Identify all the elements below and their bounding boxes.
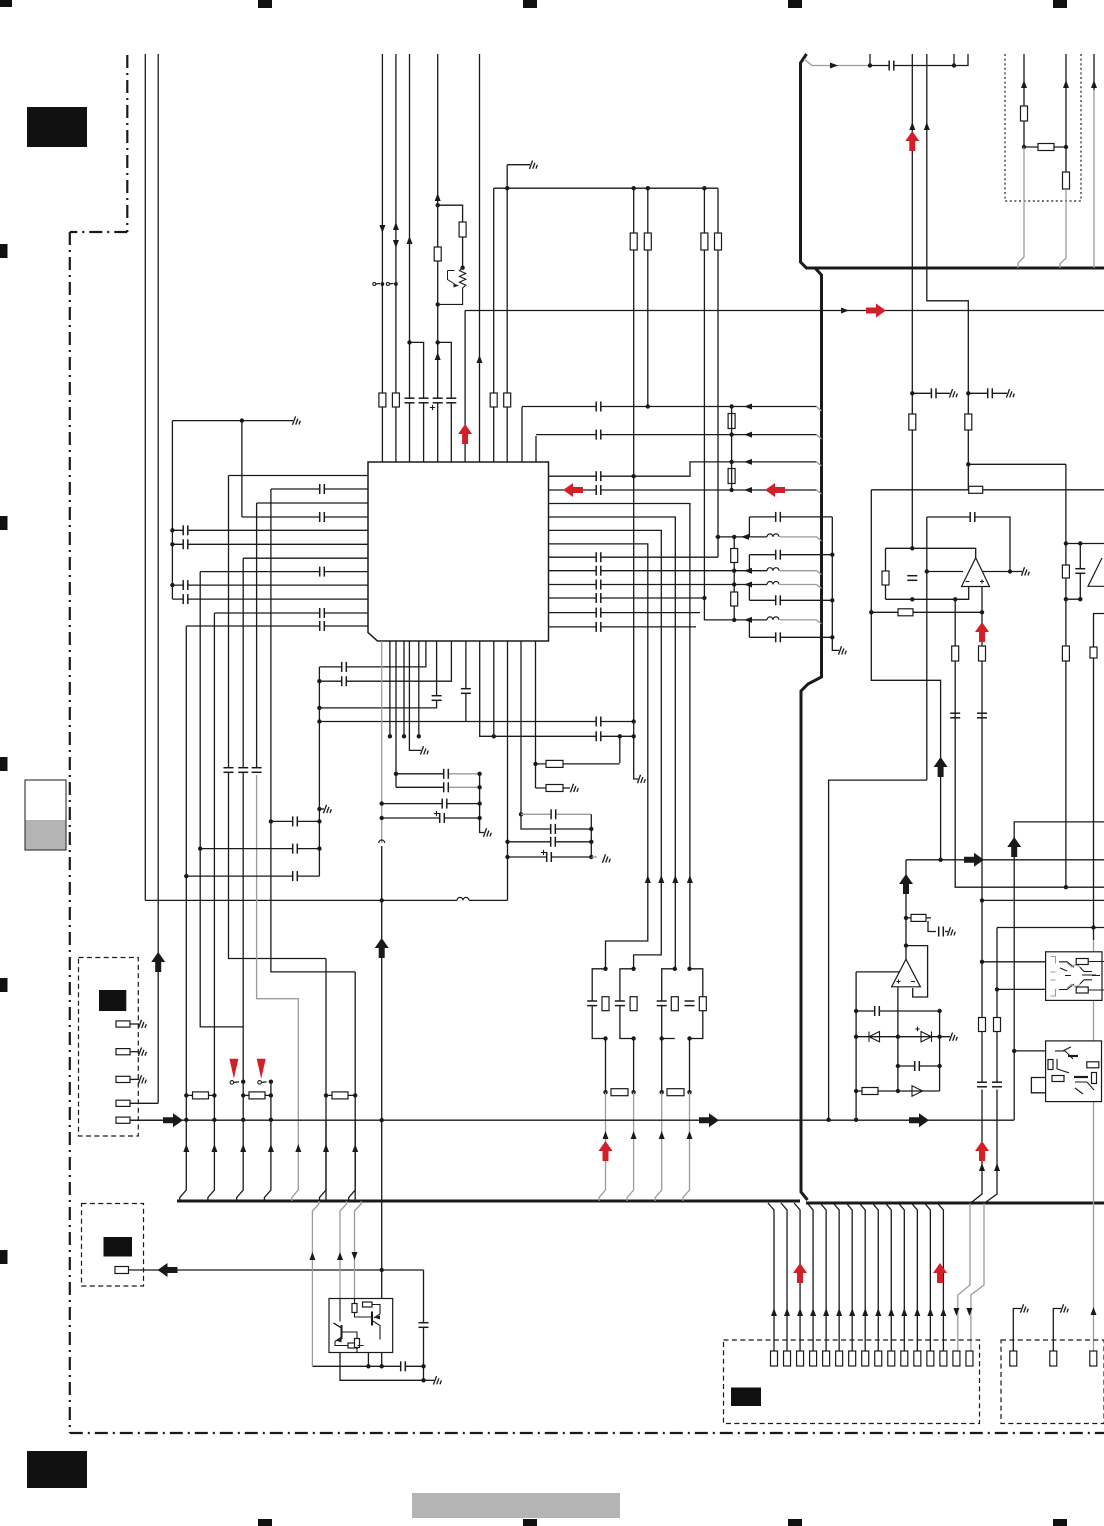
vertical wire x=243 down to switch — [242, 558, 244, 1120]
vertical wire x=271 down then right y=971 — [271, 489, 355, 972]
CN3 pin 2 — [784, 1351, 791, 1366]
cap-ground group2 y=393 — [966, 391, 970, 395]
red arrow up right group — [933, 1263, 947, 1283]
row y=1366 with cap — [312, 1365, 423, 1367]
vertical wire x=186 down to connector area — [185, 626, 187, 1120]
IC left row y=585 from x=172 — [172, 584, 368, 586]
RC pair 4 bracket — [690, 969, 703, 1039]
capacitor C pair3 — [657, 1001, 667, 1006]
CN3 pin 1 — [771, 1351, 778, 1366]
row y=803 with cap — [382, 803, 480, 805]
U5 resistor R3h — [1087, 1062, 1099, 1068]
node x=200 y=848 — [198, 846, 202, 850]
row y=708 to IC-bottom wire — [319, 641, 436, 708]
resistor R x=647 — [644, 233, 651, 250]
resistor R x=997 — [994, 1018, 1001, 1032]
node x=186 bus — [184, 1118, 188, 1122]
resistor R x=1065 upper — [1062, 565, 1069, 578]
connector CN3 pin 8 wire — [859, 1203, 865, 1351]
IC right row y=612 — [549, 612, 701, 614]
wire long horizontal y=310 — [465, 310, 1104, 312]
node branch x=437 y=342 — [436, 340, 440, 344]
wire x=1093 from op-amp U6 input down — [1094, 614, 1104, 941]
capacitor C on x=955 — [950, 713, 960, 718]
resistor R x=731 upper — [728, 414, 735, 429]
wire x=354 from thick bus to Q box — [355, 1201, 362, 1299]
capacitor C inline x=228 — [224, 768, 234, 773]
CN1 pin ground — [130, 1023, 139, 1025]
detector diode row y=1036 — [856, 1036, 950, 1038]
RC descent x=633 — [633, 1039, 635, 1093]
capacitor C inline x=243 — [238, 768, 248, 773]
capacitor C pair4 — [685, 1001, 695, 1006]
vertical x=633 from y=188 rail down to ground — [633, 188, 635, 736]
dash-dot border step at y=232 — [70, 231, 128, 233]
node switch2 — [269, 1080, 273, 1084]
capacitor C on row585 — [183, 580, 188, 590]
connector CN3 pin 16 wire — [966, 1308, 972, 1316]
U5 resistor R4v — [1092, 1073, 1097, 1084]
connector CN3 pin 2 wire — [781, 1203, 787, 1351]
channel2 coil row y=571 — [734, 570, 767, 572]
CN1 pin ground — [130, 1078, 139, 1080]
wire x=1014 bus riser — [1014, 822, 1104, 1120]
wire x=997 column — [996, 928, 998, 1085]
IC right row y=406 to boundary — [522, 406, 816, 408]
transistor array U4 box — [1046, 952, 1102, 1001]
resistor R row1 left — [186, 1094, 214, 1096]
gray rail x=1094 lower to CN4 pin3 — [1093, 940, 1095, 1351]
capacitor C on row626 — [320, 621, 325, 631]
row y=464 link — [968, 463, 1066, 465]
wire x=355 down to thick bus — [354, 972, 356, 1201]
connector CN3 pin 9 wire — [872, 1203, 878, 1351]
stub x=870 up — [869, 54, 871, 66]
vertical wire x=214 down — [213, 613, 215, 1120]
switch S1 on x=382 — [373, 283, 376, 286]
Q box resistor Rv2 — [355, 1339, 360, 1348]
IC left row y=599 from x=172 — [172, 598, 368, 600]
row y=681 to IC-bottom wire — [319, 641, 451, 681]
switch SW2 contacts — [258, 1081, 262, 1085]
registration mark top 4 — [788, 0, 802, 8]
channel4 coil row y=620 — [734, 619, 767, 621]
node x=968 y=464 — [966, 462, 970, 466]
part-number label box left (white/gray) — [25, 780, 66, 850]
IC right row y=584 to R chain — [549, 584, 735, 586]
resistor R x=885 — [885, 548, 887, 599]
row y=599 — [886, 587, 969, 600]
registration mark left 2 — [0, 516, 8, 530]
channel3 coil row y=585 — [734, 584, 767, 586]
wire x=340 below Q box — [340, 1353, 424, 1381]
IC left row y=530 from x=172 — [172, 529, 368, 531]
row y=489 with resistor to page edge — [871, 489, 1104, 491]
IC left row y=571 from x=200 — [200, 571, 368, 573]
node ladder 857 — [589, 855, 593, 859]
resistor R row2 — [243, 1094, 271, 1096]
node 708 — [317, 706, 321, 710]
resistor R pair2 — [630, 997, 637, 1011]
U4 resistor lower — [1076, 987, 1088, 993]
node 809 with ground — [317, 807, 321, 811]
wire rail x=158 top to connector pin 4 — [157, 54, 159, 1103]
channel4 bracket — [748, 620, 750, 637]
connector CN3 pin 4 wire — [807, 1203, 813, 1351]
resistor R x=982 low — [979, 1018, 986, 1032]
rail y=780 from op-amp loop with drop x=829 — [829, 780, 927, 1120]
CN3 pin 7 — [849, 1351, 856, 1366]
RC descent x=661 — [661, 1039, 663, 1093]
CN1 pin ground — [130, 1051, 139, 1053]
dash-dot border vertical upper (x=127) — [126, 55, 128, 232]
wire branch x=423 to IC pin — [410, 342, 424, 462]
row y=612 non-inv input — [871, 611, 982, 613]
wire x=926 from top, jog to x=968 — [927, 54, 969, 490]
CN3 pin 4 — [810, 1351, 817, 1366]
redacted label CN1 — [99, 990, 126, 1011]
wire x=437 from top to IC pin — [437, 54, 439, 462]
resistor R_d on x=493 — [490, 393, 497, 407]
wire x=1066 in dotted box — [1065, 54, 1067, 190]
row y=721 to IC-bottom wire and x=633 — [319, 721, 633, 723]
node x=243 bus — [241, 1118, 245, 1122]
CN3 pin 12 — [914, 1351, 921, 1366]
CN3 pin 14 — [940, 1351, 947, 1366]
resistor R x=955 — [952, 646, 959, 661]
channel2 bracket — [748, 555, 750, 571]
switch segment x=271 lower — [270, 1082, 272, 1120]
resistor R on x=437 main — [434, 247, 441, 261]
capacitor C on row571 — [320, 567, 325, 577]
vertical rail x=172 — [171, 421, 173, 599]
capacitor C bracket — [1075, 569, 1085, 574]
red arrow up x=982 — [975, 622, 989, 642]
transistor array U5 box — [1046, 1041, 1102, 1102]
IC right row y=503 to RC column 4 — [549, 504, 690, 969]
connector CN3 pin 7 wire — [846, 1203, 852, 1351]
wire x=396 from top to IC pin — [395, 54, 397, 462]
redacted label block top-left — [27, 107, 87, 147]
IC left row y=475 from x=228 — [229, 475, 369, 477]
detector cluster left rail x=856 — [855, 972, 857, 1120]
output to ground row y=571 — [1008, 569, 1012, 573]
resistor R x=1065 lower — [1062, 646, 1069, 661]
dotted option box top right — [1005, 54, 1081, 201]
IC left row y=489 from x=271 — [271, 488, 368, 490]
switch SW1 contacts — [230, 1081, 234, 1085]
left loop vertical x=871 — [871, 490, 940, 860]
op-amp U3 triangle — [892, 959, 921, 987]
wire x=404 from IC bottom to row 736 — [403, 641, 405, 736]
main thin bus y=1120 — [131, 1119, 1014, 1121]
wire x=521 from IC bottom to ladder rows — [521, 641, 591, 829]
resistor R_a on x=382 — [379, 393, 386, 407]
ground row 1380 — [424, 1379, 435, 1381]
capacitor C inline x=466 — [461, 689, 471, 694]
IC U1 main processor — [368, 462, 549, 641]
CN3 pin 6 — [836, 1351, 843, 1366]
capacitor C_a on x=409 — [405, 398, 415, 403]
connector CN3 pin 5 wire — [820, 1203, 826, 1351]
ferrite bead on x=382 — [379, 840, 385, 843]
resistor R horizontal in box — [1024, 146, 1066, 148]
IC left row y=517 from x=242 — [242, 516, 368, 518]
wire bus to thick bus — [320, 1120, 327, 1201]
vertical x=926 op-amp loop to y=780 rail — [926, 517, 928, 780]
connector CN3 pin 13 wire — [924, 1203, 930, 1351]
node x=382 on bus — [380, 1118, 384, 1122]
resistor R row y=763 — [536, 763, 620, 765]
node x=271 y=821 — [269, 819, 273, 823]
wire x=410 from IC bottom to ground — [409, 641, 421, 750]
arrow up on x=382 — [375, 938, 389, 958]
wire bus to thick bus — [180, 1120, 187, 1201]
resistor R on x=968 — [965, 414, 972, 430]
dash-dot border vertical main (x=70) — [69, 232, 71, 1433]
wire x=619 down to R row — [619, 736, 621, 763]
connector CN3 pin 6 wire — [833, 1203, 839, 1351]
IC right row y=557 to x=718 riser — [549, 556, 719, 558]
capacitor C x=423 — [419, 1323, 429, 1328]
thick boundary branch down x=821 — [801, 268, 822, 1200]
IC right row y=434 to boundary — [536, 434, 816, 436]
gray drop x=1066 to bus — [1060, 189, 1066, 268]
cap row y=821 — [271, 820, 320, 822]
node x=214 bus — [212, 1118, 216, 1122]
vertical wire x=200 down — [200, 572, 243, 1027]
channel1 cap line y=517 — [749, 516, 832, 518]
wire x=982 down to connector pin15 — [970, 1090, 982, 1204]
CN1 pin 3 — [116, 1076, 130, 1082]
switch SW2 red marker — [257, 1059, 266, 1079]
IC left row y=626 from x=186 — [186, 625, 368, 627]
registration mark left 3 — [0, 757, 8, 771]
arrow up on x=158 rail — [151, 952, 165, 972]
connector CN3 pin 1 wire — [768, 1203, 774, 1351]
ladder row 814 — [521, 813, 591, 815]
trimmer RV1 zigzag — [438, 268, 466, 305]
node x=1066 — [1064, 145, 1068, 149]
resistor R row3 — [326, 1094, 355, 1096]
CN1 pin5 wire to bus — [130, 1119, 165, 1121]
vertical rail x=319 with cap rows — [318, 667, 320, 876]
row y=927 to page edge — [1091, 925, 1095, 929]
capacitor C_c (polarized) on x=437 — [433, 398, 443, 403]
node x=507 y=188 — [505, 186, 509, 190]
thick bus bottom y=1202 — [177, 1200, 800, 1203]
resistor R pair4 — [699, 997, 706, 1011]
long wire x=912 from top to op-amp — [911, 54, 913, 548]
arrow up on x=940 — [934, 757, 948, 777]
IC left row y=613 from x=214 — [214, 612, 368, 614]
vertical x=718 from y=188 rail to row 557 — [717, 188, 719, 557]
node 818 — [380, 816, 384, 820]
resistor R_e on x=507 — [504, 393, 511, 407]
wire y=900 right segment from x=982 — [982, 899, 1104, 901]
wire x=480 from IC bottom via y=736 row — [480, 641, 634, 736]
node x=243 R-row — [241, 1093, 245, 1097]
row y=773 with cap — [394, 772, 398, 776]
connector CN4 dashed box — [1001, 1340, 1104, 1424]
IC right row y=530 to RC column 2 — [549, 530, 662, 968]
CN2 pin 1 — [115, 1267, 129, 1274]
CN1 pin 1 — [116, 1021, 130, 1027]
detector cap row y=1011 — [856, 1010, 940, 1012]
IC left row y=558 from x=243 — [243, 557, 368, 559]
redacted gray bar bottom center — [412, 1493, 620, 1518]
dash-dot border horizontal bottom (y=1433) — [70, 1432, 1104, 1434]
redacted label block bottom-left — [27, 1451, 87, 1488]
wire rail left x=145 to corner y=900 — [144, 54, 146, 901]
CN1 pin 4 — [116, 1100, 130, 1106]
wire x=409 from top to IC pin — [409, 54, 411, 462]
registration mark top 3 — [523, 0, 537, 8]
resistor R x=718 — [715, 233, 722, 250]
CN4 pin 2 ground wire — [1053, 1309, 1061, 1352]
connector CN1 dashed box — [79, 958, 139, 1137]
resistor R x=1093 — [1090, 647, 1097, 658]
row y=887 to page edge — [1064, 885, 1068, 889]
wire x=494 from IC bottom to row 736 — [493, 641, 495, 736]
non-inv input row y=971 — [856, 971, 899, 973]
R chain vertical x=734 — [733, 537, 735, 620]
capacitor C on row599 — [183, 594, 188, 604]
ladder row 841 — [508, 841, 592, 843]
resistor R low row 2 — [667, 1089, 684, 1096]
node x=214 R-row — [212, 1093, 216, 1097]
wire x=522 corner into IC top — [521, 407, 523, 462]
vertical wire x=228 down then right y=958 — [229, 476, 327, 959]
capacitor C_d on x=451 — [446, 398, 456, 403]
capacitor C on x=982 — [977, 713, 987, 718]
red arrow up x=912 — [905, 131, 919, 151]
vertical x=832 to ground — [832, 517, 839, 651]
RC pair 2 bracket — [620, 969, 634, 1039]
resistor R on x=912 — [909, 414, 916, 430]
vertical link x=731 — [731, 407, 733, 491]
registration mark left 4 — [0, 978, 8, 992]
CN1 pin4 wire — [130, 1102, 158, 1104]
channel1 coil row y=537 — [716, 536, 768, 538]
U5 transistor Q1 — [1055, 1047, 1073, 1073]
connector CN3 pin 10 wire — [885, 1203, 891, 1351]
resistor R row y=788 — [536, 787, 571, 789]
node x=271 bus — [269, 1118, 273, 1122]
wire x=419 from IC bottom to row 736 — [418, 641, 420, 736]
wire x=507 from IC bottom to long-line corner — [507, 641, 509, 900]
resistor R x=982 mid — [979, 646, 986, 661]
stub x=954 up — [953, 54, 955, 66]
transistor pair Q box — [329, 1299, 393, 1353]
registration mark bottom 1 — [258, 1519, 272, 1526]
connector CN3 pin 15 wire — [953, 1308, 959, 1316]
wire x=479 from top to IC pin — [479, 54, 481, 462]
wire bus to thick bus — [349, 1120, 356, 1201]
resistor R pair3 — [671, 997, 678, 1011]
connector CN3 pin 14 wire — [937, 1203, 943, 1351]
IC left row y=544 from x=172 — [172, 543, 368, 545]
registration mark top 2 — [258, 0, 272, 8]
wire x=536 corner into IC top — [535, 436, 537, 462]
wire x=535 from IC bottom to R rows — [535, 641, 537, 788]
cap row y=876 — [186, 875, 319, 877]
op-amp U2 triangle — [962, 558, 990, 587]
detector R/diode row y=1091 — [856, 1090, 940, 1092]
registration mark bottom 2 — [523, 1519, 537, 1526]
op-amp U6 partial at page edge — [1088, 558, 1104, 586]
IC right row y=627 — [549, 626, 697, 628]
wire x=493 from y=188 corner to IC pin — [493, 188, 495, 462]
registration mark top 5 — [1053, 0, 1067, 8]
capacitor C inline x=436 — [432, 696, 442, 701]
node 721 — [317, 719, 321, 723]
wire x=982 down with R — [981, 612, 983, 1084]
channel4 cap line y=637 — [749, 636, 832, 638]
feedback loop op-amp U3 — [906, 946, 928, 997]
op-amp U3 column x=906 — [905, 860, 907, 959]
IC right row y=598 — [549, 597, 705, 599]
node x=982 y=961 — [980, 960, 984, 964]
CN3 pin 3 — [797, 1351, 804, 1366]
registration mark bottom 4 — [1053, 1519, 1067, 1526]
wire x=382 from top to IC pin — [381, 54, 383, 462]
resistor R_b on x=396 — [392, 393, 399, 407]
resistor R_c branch x=462 — [438, 205, 463, 268]
IC right row y=544 to RC column 1 — [549, 544, 648, 969]
node 681 — [317, 679, 321, 683]
wire branch x=451 to IC pin — [438, 342, 452, 462]
connector CN2 dashed box — [82, 1204, 144, 1287]
connector CN3 pin 3 wire — [794, 1203, 800, 1351]
redacted label CN3 — [731, 1388, 761, 1407]
switch S2 on x=396 — [386, 283, 389, 286]
wire x=1065 down — [1065, 464, 1067, 887]
row y=989 to IC box1 — [997, 988, 1046, 990]
vertical x=704 from y=188 rail — [704, 188, 734, 620]
wire bracket top to op-amp U6 — [1080, 543, 1104, 545]
node at x=409 y=342 — [407, 340, 411, 344]
switch SW1 red marker — [229, 1059, 238, 1079]
node switch1 — [241, 1080, 245, 1084]
CN1 pin 2 — [116, 1049, 130, 1055]
row y=787 with cap — [396, 786, 446, 788]
CN1 pin 5 — [116, 1117, 130, 1123]
red arrow right on y=310 — [866, 304, 886, 318]
red arrow up on x=465 — [458, 424, 472, 444]
wire x=423 down to ground net — [423, 1270, 425, 1380]
cap-ground group1 y=393 — [910, 391, 914, 395]
U4 resistor upper — [1076, 959, 1088, 965]
vertical x=647 from y=188 rail — [647, 188, 649, 406]
node y=420 x=242 — [240, 418, 244, 422]
resistor R pair1 — [602, 997, 609, 1011]
IC right row y=570 to R chain — [549, 570, 735, 572]
capacitor C on row517 — [320, 512, 325, 522]
red arrow up x=982 near bus — [975, 1141, 989, 1161]
CN3 pin 10 — [888, 1351, 895, 1366]
connector CN3 dashed box — [724, 1340, 980, 1424]
junction column x=479 to ground — [480, 774, 484, 833]
node x=186 R-row — [184, 1093, 188, 1097]
wire x=507 from ground stub to IC pin — [506, 165, 508, 462]
Q box transistor Q2 — [334, 1323, 358, 1342]
red arrow up x=605 — [599, 1141, 613, 1161]
ladder row 857 with polarized cap — [508, 856, 592, 858]
channel2 RC bracket — [1066, 544, 1080, 600]
U5 resistor R1v — [1048, 1060, 1053, 1070]
node inv input row — [925, 569, 929, 573]
